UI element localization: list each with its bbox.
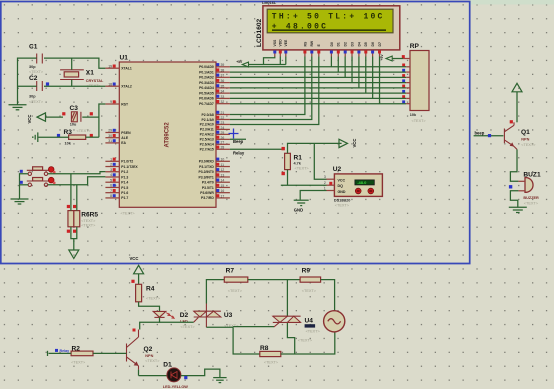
svg-text:27: 27	[221, 141, 225, 145]
svg-text:R7: R7	[226, 267, 235, 274]
wire RST net	[99, 104, 106, 137]
svg-text:23: 23	[221, 121, 225, 125]
wire button1 to P1.2	[48, 172, 106, 174]
svg-text:D5: D5	[364, 42, 368, 46]
svg-text:<TEXT>: <TEXT>	[521, 143, 536, 147]
wire R2 left / Relay terminal	[49, 352, 72, 354]
svg-text:35: 35	[221, 84, 225, 88]
svg-text:3: 3	[110, 168, 112, 172]
svg-text:P3.1/TXD: P3.1/TXD	[199, 165, 214, 169]
svg-text:LED-YELLOW: LED-YELLOW	[163, 385, 189, 389]
svg-text:<TEXT>: <TEXT>	[295, 167, 310, 171]
wire VSS	[264, 57, 275, 65]
wire U2 GND pin	[300, 191, 326, 200]
svg-text:beep: beep	[475, 131, 485, 136]
svg-text:ALE: ALE	[121, 136, 129, 140]
wire R3 right	[86, 136, 99, 138]
svg-text:4: 4	[110, 173, 112, 177]
svg-text:U3: U3	[224, 312, 233, 319]
wire R7 to junction	[248, 279, 300, 281]
wire U3 top to R7	[206, 280, 224, 304]
svg-text:P2.6/A14: P2.6/A14	[200, 143, 214, 147]
wire P0.3 net	[230, 82, 406, 84]
wire P0.5 net	[230, 92, 406, 94]
svg-text:D4: D4	[357, 42, 361, 46]
svg-text:AT89C52: AT89C52	[165, 122, 171, 148]
capacitor C2	[29, 75, 44, 104]
svg-text:32: 32	[221, 100, 225, 104]
svg-text:GND: GND	[294, 208, 303, 213]
svg-text:+5V: +5V	[380, 54, 384, 61]
svg-text:P1.0/T2: P1.0/T2	[121, 160, 133, 164]
svg-text:30: 30	[108, 134, 112, 138]
svg-text:-48.0: -48.0	[357, 180, 367, 185]
temperature sensor U2 DS18B20	[324, 166, 382, 207]
svg-text:TH:+ 50 TL:+ 10C: TH:+ 50 TL:+ 10C	[272, 13, 385, 22]
svg-text:LM016L: LM016L	[262, 1, 277, 5]
ground	[509, 206, 527, 208]
wire D1 cathode to ground	[181, 369, 220, 378]
svg-text:CRYSTAL: CRYSTAL	[86, 79, 104, 83]
wire button2 to P1.3	[48, 177, 106, 185]
transistor Q2 NPN	[127, 329, 161, 370]
svg-text:<TEXT>: <TEXT>	[146, 297, 161, 301]
svg-text:30p: 30p	[29, 65, 36, 69]
svg-text:10k: 10k	[65, 142, 72, 146]
svg-text:P1.2: P1.2	[121, 170, 128, 174]
svg-text:10: 10	[221, 158, 225, 162]
svg-text:P2.7/A15: P2.7/A15	[200, 148, 214, 152]
resistor R4	[136, 284, 161, 302]
svg-text:P0.2/AD2: P0.2/AD2	[199, 76, 214, 80]
svg-text:<TEXT>: <TEXT>	[306, 329, 321, 333]
svg-text:1: 1	[110, 158, 112, 162]
LCD display LCD1602	[256, 1, 400, 56]
wire button2 left	[20, 184, 29, 186]
svg-text:RW: RW	[310, 40, 314, 46]
svg-text:31: 31	[108, 139, 112, 143]
svg-text:P0.1/AD1: P0.1/AD1	[199, 70, 214, 74]
svg-text:22: 22	[221, 116, 225, 120]
svg-text:29: 29	[108, 129, 112, 133]
wire to R8	[233, 327, 260, 354]
svg-text:D7: D7	[378, 42, 382, 46]
diode D1 LED-YELLOW	[163, 361, 189, 389]
svg-text:37: 37	[221, 74, 225, 78]
svg-text:24: 24	[221, 126, 225, 130]
svg-text:X1: X1	[86, 70, 94, 77]
svg-text:<TEXT>: <TEXT>	[81, 224, 96, 228]
svg-text:U1: U1	[120, 55, 129, 62]
ground	[294, 200, 309, 212]
wire XTAL1 net	[44, 58, 105, 68]
wire Beep stub at P2.5	[230, 138, 246, 140]
wire Q2 emitter to D1	[138, 370, 140, 376]
svg-text:BUZZER: BUZZER	[523, 196, 539, 200]
svg-text:P0.4/AD4: P0.4/AD4	[199, 86, 214, 90]
svg-text:D3: D3	[350, 42, 354, 46]
capacitor C1	[29, 44, 44, 75]
svg-text:XTAL1: XTAL1	[121, 67, 132, 71]
resistor R9	[300, 267, 321, 293]
svg-text:P1.4: P1.4	[121, 181, 128, 185]
svg-text:28: 28	[221, 146, 225, 150]
wire P0.2 net	[230, 76, 406, 78]
svg-text:21: 21	[221, 111, 225, 115]
svg-text:RP: RP	[410, 43, 420, 50]
svg-text:3: 3	[324, 175, 326, 179]
svg-text:19: 19	[108, 64, 112, 68]
wire P0.7 net	[230, 103, 406, 105]
capacitor C3	[62, 105, 93, 126]
svg-text:P3.4/T0: P3.4/T0	[202, 181, 214, 185]
svg-text:P2.5/A13: P2.5/A13	[200, 138, 214, 142]
svg-text:P1.3: P1.3	[121, 175, 128, 179]
transistor Q1 NPN	[504, 120, 536, 149]
svg-text:U2: U2	[333, 166, 342, 173]
svg-text:<TEXT>: <TEXT>	[524, 201, 539, 205]
svg-text:VCC: VCC	[130, 256, 139, 261]
svg-text:<TEXT>: <TEXT>	[298, 338, 313, 342]
wire C3 right to RST	[82, 116, 99, 118]
svg-text:<TEXT>: <TEXT>	[302, 289, 317, 293]
wire R1 bottom / DQ net	[287, 170, 289, 186]
svg-text:R9: R9	[302, 267, 311, 274]
wire P0.0 net	[230, 66, 406, 68]
wire R3 left to ground	[38, 136, 68, 138]
triac U3	[194, 304, 239, 329]
svg-text:33: 33	[221, 95, 225, 99]
svg-text:R1: R1	[294, 155, 303, 162]
svg-text:10u: 10u	[70, 123, 77, 127]
diode D2 LED	[153, 311, 195, 328]
svg-text:D2: D2	[180, 312, 189, 319]
svg-text:D0: D0	[330, 42, 334, 46]
wire R5 top	[76, 185, 78, 211]
svg-text:RST: RST	[121, 102, 129, 106]
svg-text:5: 5	[110, 178, 112, 182]
svg-text:P0.5/AD5: P0.5/AD5	[199, 91, 214, 95]
svg-text:<TEXT>: <TEXT>	[335, 204, 350, 208]
svg-text:38: 38	[221, 68, 225, 72]
svg-text:6: 6	[110, 184, 112, 188]
svg-text:P3.6/WR: P3.6/WR	[200, 191, 214, 195]
svg-text:P3.2/INT0: P3.2/INT0	[199, 170, 214, 174]
svg-text:Beep: Beep	[233, 139, 244, 144]
svg-text:PSEN: PSEN	[121, 131, 131, 135]
svg-text:U4: U4	[305, 318, 314, 325]
push button 1	[27, 167, 56, 176]
wire crystal top	[71, 58, 73, 70]
svg-text:VEE: VEE	[284, 39, 288, 47]
svg-text:<TEXT>: <TEXT>	[145, 359, 160, 363]
svg-text:26: 26	[221, 136, 225, 140]
resistor R3	[57, 129, 93, 146]
svg-text:P1.1/T2EX: P1.1/T2EX	[121, 165, 138, 169]
resistor R1	[282, 147, 310, 175]
AC source	[298, 311, 345, 343]
svg-text:R4: R4	[146, 286, 155, 293]
power +5V terminal at RP	[380, 54, 403, 61]
resistor R6	[67, 205, 74, 233]
svg-text:30p: 30p	[29, 95, 36, 99]
svg-text:2: 2	[324, 181, 326, 185]
svg-text:13: 13	[221, 173, 225, 177]
svg-text:D1: D1	[337, 42, 341, 46]
svg-text:P0.7/AD7: P0.7/AD7	[199, 102, 214, 106]
svg-text:34: 34	[221, 90, 225, 94]
wire XTAL2 net	[44, 85, 105, 87]
svg-text:EA: EA	[121, 141, 126, 145]
svg-text:P1.6: P1.6	[121, 191, 128, 195]
svg-text:<TEXT>: <TEXT>	[181, 325, 196, 329]
wire R8 right to AC source bottom	[281, 332, 335, 354]
svg-text:<TEXT>: <TEXT>	[29, 70, 44, 74]
svg-text:P0.0/AD0: P0.0/AD0	[199, 65, 214, 69]
svg-text:36: 36	[221, 79, 225, 83]
svg-text:18: 18	[108, 82, 112, 86]
wire U4 top	[286, 280, 288, 317]
svg-text:7: 7	[110, 189, 112, 193]
wire buttons left to ground	[20, 174, 29, 199]
power +5V terminal at LCD	[236, 60, 286, 67]
svg-text:XTAL2: XTAL2	[121, 85, 132, 89]
svg-text:P2.3/A11: P2.3/A11	[200, 128, 214, 132]
svg-text:11: 11	[221, 163, 225, 167]
crystal X1	[60, 70, 104, 89]
svg-text:D2: D2	[344, 42, 348, 46]
wire P0.6 net	[230, 97, 406, 99]
wire resistor bottoms to arrow	[71, 227, 77, 239]
wire C2 left	[18, 85, 37, 87]
wire R9 right to AC source	[321, 280, 335, 311]
svg-text:8: 8	[110, 194, 112, 198]
svg-text:<TEXT>: <TEXT>	[77, 129, 92, 133]
svg-text:P0.3/AD3: P0.3/AD3	[199, 81, 214, 85]
wire beep to Q1 base	[474, 135, 504, 137]
wire VDD	[279, 57, 281, 65]
svg-text:VCC: VCC	[27, 115, 32, 124]
svg-text:P2.0/A8: P2.0/A8	[202, 113, 214, 117]
wire R6 top	[70, 174, 72, 211]
svg-text:P2.2/A10: P2.2/A10	[200, 123, 214, 127]
svg-text:VDD: VDD	[279, 39, 283, 47]
svg-text:P2.4/A12: P2.4/A12	[200, 133, 214, 137]
wire LCD control 0	[230, 57, 305, 115]
power VCC terminal bottom	[130, 256, 144, 284]
wire U4 gate	[273, 326, 275, 328]
svg-text:C3: C3	[70, 105, 79, 112]
wire VCC branch to U2	[314, 143, 326, 179]
wire P0.4 net	[230, 87, 406, 89]
svg-text:C1: C1	[29, 44, 38, 51]
svg-text:14: 14	[221, 179, 225, 183]
svg-text:15: 15	[221, 184, 225, 188]
svg-text:9: 9	[110, 100, 112, 104]
svg-text:P3.5/T1: P3.5/T1	[202, 186, 214, 190]
svg-text:<TEXT>: <TEXT>	[71, 361, 86, 365]
wire buzzer to ground	[510, 191, 518, 208]
svg-text:DS18B20: DS18B20	[334, 199, 350, 203]
svg-text:<TEXT>: <TEXT>	[264, 360, 279, 364]
svg-text:DQ: DQ	[338, 184, 344, 188]
wire LCD control 2	[230, 57, 319, 125]
power arrow up	[512, 83, 522, 122]
svg-text:D6: D6	[371, 42, 375, 46]
svg-text:NPN: NPN	[145, 354, 153, 358]
svg-text:Relay: Relay	[233, 151, 245, 156]
svg-text:R6R5: R6R5	[81, 211, 98, 218]
svg-text:P2.1/A9: P2.1/A9	[202, 118, 214, 122]
wire VEE	[285, 57, 287, 65]
svg-text:2: 2	[110, 163, 112, 167]
resistor R8	[260, 345, 281, 364]
ground	[213, 378, 226, 383]
buzzer BUZ1	[509, 171, 541, 205]
svg-text:Q1: Q1	[521, 129, 530, 136]
push button 2	[27, 177, 56, 186]
ground	[11, 199, 29, 204]
svg-text:P3.3/INT1: P3.3/INT1	[199, 175, 214, 179]
svg-text:<TEXT>: <TEXT>	[412, 119, 427, 123]
wire crystal bottom	[71, 80, 73, 87]
svg-text:+5V: +5V	[236, 60, 243, 64]
svg-text:P3.0/RXD: P3.0/RXD	[199, 160, 215, 164]
svg-text:P1.5: P1.5	[121, 186, 128, 190]
svg-text:<TEXT>: <TEXT>	[121, 212, 136, 216]
svg-text:GND: GND	[338, 190, 346, 194]
svg-text:RS: RS	[303, 41, 307, 46]
power VCC terminal right	[339, 139, 357, 148]
wire U3 bottom node	[206, 326, 233, 328]
svg-text:<TEXT>: <TEXT>	[29, 100, 44, 104]
resistor R7	[224, 267, 248, 293]
svg-text:Q2: Q2	[144, 346, 153, 353]
svg-text:P0.6/AD6: P0.6/AD6	[199, 97, 214, 101]
wire P0.1 net	[230, 71, 406, 73]
microcontroller U1 AT89C52	[105, 55, 229, 216]
svg-text:4.7k: 4.7k	[294, 162, 302, 166]
wire R4 bottom to D2 anode	[139, 302, 160, 312]
svg-text:<TEXT>: <TEXT>	[81, 219, 96, 223]
triac U4	[273, 316, 321, 333]
wire Relay net P2.7 to R1 top	[230, 148, 283, 150]
wire R2 to Q2 base	[93, 352, 127, 354]
svg-text:NPN: NPN	[521, 138, 529, 142]
wire Q1 emitter to buzzer	[510, 149, 518, 181]
svg-text:16: 16	[221, 189, 225, 193]
resistor R2	[71, 345, 93, 364]
wire caps to ground	[18, 58, 37, 105]
svg-text:VSS: VSS	[273, 39, 277, 47]
ground	[9, 105, 27, 110]
svg-text:VCC: VCC	[352, 139, 357, 148]
svg-text:D1: D1	[163, 361, 172, 368]
svg-text:1: 1	[324, 187, 326, 191]
svg-text:39: 39	[221, 63, 225, 67]
power VCC terminal	[27, 113, 63, 124]
svg-text:25: 25	[221, 131, 225, 135]
svg-text:17: 17	[221, 194, 225, 198]
junction marker	[229, 129, 239, 139]
wire LCD control 1	[230, 57, 312, 120]
resistor pack RP	[402, 43, 429, 123]
svg-text:10k: 10k	[410, 113, 417, 117]
wire D2 cathode to Q2 collector and U3 gate	[140, 317, 160, 329]
power down arrow	[69, 250, 79, 259]
svg-text:P3.7/RD: P3.7/RD	[201, 196, 214, 200]
svg-text:12: 12	[221, 168, 225, 172]
ground sideways	[33, 132, 38, 142]
resistor R5	[73, 205, 80, 233]
wire R1 top to VCC arrow	[288, 143, 342, 153]
svg-text:Relay: Relay	[60, 349, 70, 353]
wire U4 bottom	[287, 322, 294, 354]
svg-text:VCC: VCC	[338, 178, 346, 182]
svg-text:<TEXT>: <TEXT>	[228, 289, 243, 293]
svg-text:P1.7: P1.7	[121, 196, 128, 200]
